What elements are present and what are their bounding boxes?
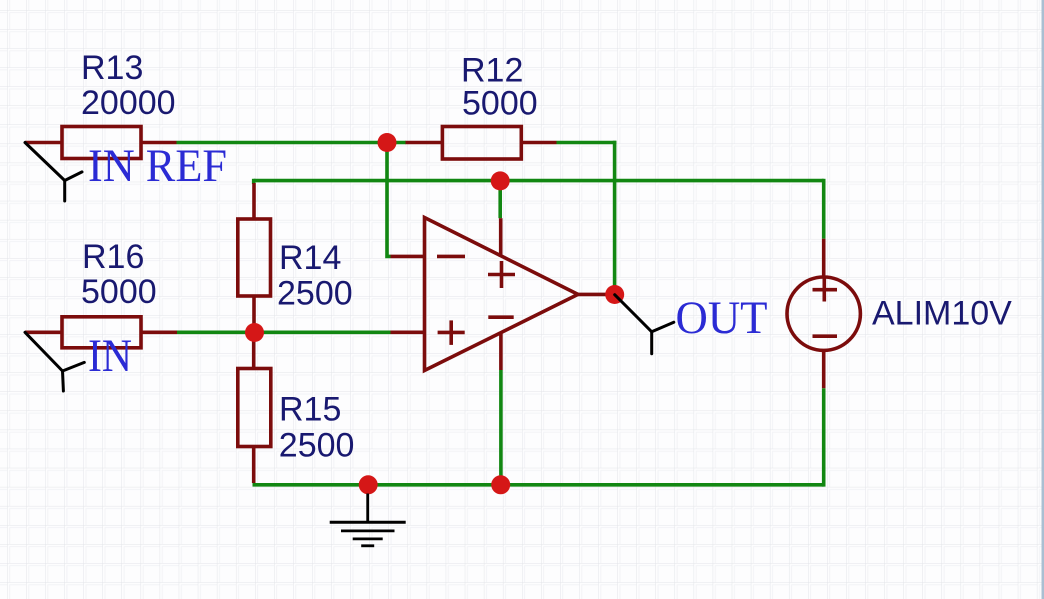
resistor R12 <box>406 127 557 160</box>
node label OUT <box>676 292 768 344</box>
port IN REF <box>25 143 82 202</box>
svg-text:R13: R13 <box>81 49 143 87</box>
voltage source ALIM10V <box>787 239 860 389</box>
svg-text:2500: 2500 <box>277 275 353 313</box>
resistor R13 <box>25 127 177 159</box>
wire V+ rail down to ALIM10V top <box>822 179 826 239</box>
wire net IN REF to node A <box>177 141 407 145</box>
label R16 value 5000 <box>81 273 157 311</box>
svg-text:20000: 20000 <box>81 84 176 122</box>
node label IN REF <box>88 140 227 192</box>
wire node A down to inverting input <box>387 143 391 257</box>
op-amp U1 <box>391 218 615 371</box>
label R14 value 2500 <box>277 275 353 313</box>
wire V+ rail horizontal <box>254 179 824 183</box>
junction ground rail / opamp V- <box>491 475 510 494</box>
wire ground rail <box>253 483 824 487</box>
node label IN <box>88 330 132 382</box>
window right edge border <box>1042 0 1044 599</box>
label R13 value 20000 <box>81 84 176 122</box>
port IN <box>25 332 84 391</box>
label R12 reference <box>461 52 523 90</box>
wire OUT vertical <box>613 141 617 295</box>
resistor R15 <box>238 333 271 484</box>
junction V+ rail / opamp V+ <box>491 171 510 190</box>
junction OUT node <box>605 285 624 304</box>
label R13 reference <box>81 49 143 87</box>
svg-text:OUT: OUT <box>676 292 768 344</box>
label R12 value 5000 <box>462 85 538 123</box>
svg-text:R15: R15 <box>279 391 341 429</box>
wire R12 right to OUT vertical <box>557 141 617 145</box>
svg-text:IN: IN <box>88 330 132 382</box>
svg-text:2500: 2500 <box>279 427 355 465</box>
wire ALIM10V bottom to ground rail <box>822 388 826 486</box>
junction IN node <box>245 323 264 342</box>
label R15 reference <box>279 391 341 429</box>
svg-text:ALIM10V: ALIM10V <box>872 295 1012 333</box>
label R16 reference <box>82 238 144 276</box>
wire V+ rail corner to R14 <box>252 179 256 184</box>
label ALIM10V <box>872 295 1012 333</box>
label R15 value 2500 <box>279 427 355 465</box>
svg-text:5000: 5000 <box>462 85 538 123</box>
svg-text:R16: R16 <box>82 238 144 276</box>
wire opamp V- down to ground rail <box>499 370 503 485</box>
ground <box>330 494 406 546</box>
junction node A (R13/R12) <box>378 133 397 152</box>
resistor R16 <box>25 317 177 348</box>
wire junction to opamp V+ <box>498 181 502 218</box>
wire IN net <box>177 330 391 334</box>
junction ground rail / ground symbol <box>359 475 378 494</box>
svg-text:IN REF: IN REF <box>88 140 227 192</box>
label R14 reference <box>279 239 341 277</box>
svg-text:5000: 5000 <box>81 273 157 311</box>
svg-text:R14: R14 <box>279 239 341 277</box>
port OUT <box>615 295 674 354</box>
resistor R14 <box>238 183 271 333</box>
